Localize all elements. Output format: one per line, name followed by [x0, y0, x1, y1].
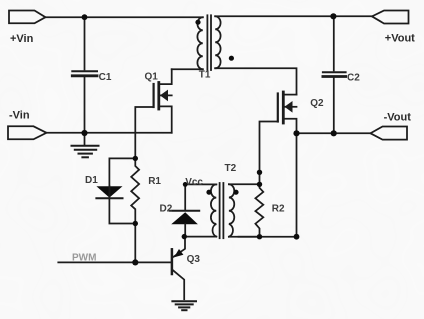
svg-text:D1: D1 [85, 175, 98, 186]
svg-text:C2: C2 [347, 73, 360, 84]
svg-text:R1: R1 [148, 176, 161, 187]
svg-text:PWM: PWM [72, 253, 96, 264]
svg-text:Vcc: Vcc [185, 177, 203, 188]
svg-text:Q1: Q1 [145, 72, 159, 83]
svg-text:-Vin: -Vin [9, 109, 30, 121]
svg-text:-Vout: -Vout [384, 111, 412, 123]
svg-text:D2: D2 [160, 204, 173, 215]
svg-text:Q3: Q3 [187, 254, 201, 265]
svg-text:+Vout: +Vout [385, 32, 415, 44]
svg-text:T2: T2 [225, 163, 237, 174]
svg-text:T1: T1 [199, 70, 211, 81]
svg-text:C1: C1 [99, 72, 112, 83]
svg-text:Q2: Q2 [310, 98, 324, 109]
svg-text:R2: R2 [272, 204, 285, 215]
svg-text:+Vin: +Vin [10, 33, 34, 45]
